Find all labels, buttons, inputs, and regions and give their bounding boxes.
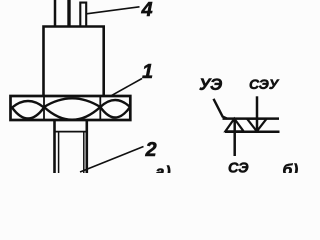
leader line 1: [111, 79, 142, 96]
hex facet divider right: [99, 96, 101, 120]
lead left thin (top of device): [54, 0, 57, 26]
right triangle (apex down): [247, 119, 267, 132]
thread root line right: [83, 132, 85, 173]
svg-text:4: 4: [141, 0, 153, 21]
cathode lead СЭ: [233, 119, 236, 156]
svg-text:СЭ: СЭ: [228, 161, 249, 174]
leader line 2: [80, 147, 144, 173]
hex facet divider left: [43, 96, 45, 120]
svg-text:2: 2: [145, 139, 157, 161]
svg-text:б): б): [283, 162, 299, 173]
stud outer edge left: [53, 120, 56, 173]
svg-text:УЭ: УЭ: [199, 75, 222, 94]
svg-text:1: 1: [142, 61, 153, 83]
lead middle thick: [67, 0, 70, 26]
hex flange outer rect: [11, 96, 131, 120]
device body: [44, 27, 104, 97]
leader line 4: [87, 7, 140, 14]
thread start line: [55, 131, 87, 133]
hex facet lens middle: [44, 98, 100, 120]
stud outer edge right: [86, 120, 89, 173]
control lead 4 outlined tube: [80, 3, 86, 26]
symbol top bar: [223, 117, 280, 120]
left triangle (apex up): [225, 119, 243, 132]
thread root line left: [58, 132, 60, 173]
svg-text:СЭУ: СЭУ: [249, 76, 280, 92]
anode lead СЭУ: [256, 96, 259, 131]
symbol bottom bar: [225, 131, 280, 134]
hex facet lens right: [100, 100, 130, 118]
svg-text:а): а): [156, 164, 172, 173]
hex facet lens left: [12, 101, 44, 119]
gate lead УЭ polyline: [214, 99, 228, 119]
